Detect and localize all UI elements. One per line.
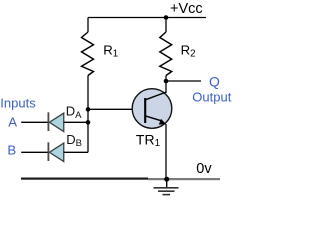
node diode DA junction	[86, 120, 91, 125]
wire bottom rail left (0v)	[21, 178, 148, 180]
svg-text:Inputs: Inputs	[0, 95, 36, 110]
wire base wire	[88, 108, 145, 110]
svg-text:R1: R1	[103, 43, 118, 60]
wire collector vertical	[165, 81, 167, 93]
svg-text:R2: R2	[181, 43, 196, 60]
ground	[154, 179, 179, 195]
wire bottom rail right	[148, 178, 220, 180]
node collector junction	[164, 79, 169, 84]
resistor R1	[82, 18, 94, 110]
svg-text:DA: DA	[66, 104, 82, 121]
node emitter-rail junction	[164, 177, 169, 182]
node Vcc junction dot	[164, 15, 169, 20]
wire output Q	[166, 80, 201, 82]
transistor TR1	[132, 89, 172, 129]
resistor R2	[160, 18, 172, 82]
svg-text:A: A	[8, 114, 17, 129]
wire input A	[21, 121, 48, 123]
svg-text:0v: 0v	[196, 161, 212, 177]
wire input B	[21, 151, 48, 153]
svg-text:DB: DB	[66, 132, 82, 149]
wire vertical junction column	[87, 110, 89, 153]
svg-text:B: B	[7, 142, 16, 157]
svg-text:+Vcc: +Vcc	[170, 1, 203, 17]
node base tap junction	[86, 107, 91, 112]
svg-text:Q: Q	[209, 73, 220, 89]
svg-text:TR1: TR1	[136, 131, 161, 149]
diode DA	[48, 112, 88, 131]
wire emitter vertical	[165, 124, 167, 179]
svg-text:Output: Output	[192, 90, 231, 105]
wire top rail +Vcc	[88, 17, 206, 19]
diode DB	[48, 142, 88, 161]
